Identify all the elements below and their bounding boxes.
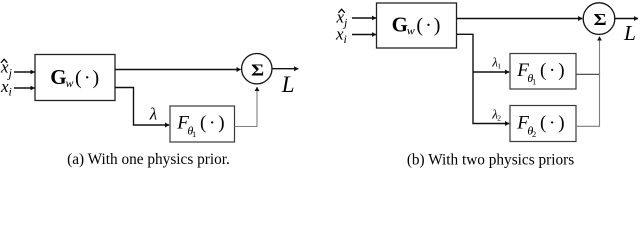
svg-text:Gw(·): Gw(·) xyxy=(50,65,99,90)
svg-text:Σ: Σ xyxy=(594,10,607,29)
wire input arrow x_j_hat to G_w (b) xyxy=(352,17,376,19)
wire branch arrow to F_theta1 (b) xyxy=(473,71,509,73)
svg-text:Gw(·): Gw(·) xyxy=(392,13,441,38)
block G_w box (a) xyxy=(35,55,115,101)
wire G_w output to sigma (b) xyxy=(457,18,583,20)
wire input arrow x_i to G_w (b) xyxy=(352,34,376,36)
summation node sigma (a) xyxy=(242,53,272,83)
wire input arrow x_j_hat to G_w xyxy=(14,71,35,73)
wire F_theta1 output to riser (b) xyxy=(576,73,600,75)
block F_theta1 box (a) xyxy=(170,106,235,142)
hat accent over x (a) xyxy=(1,59,7,63)
wire input arrow x_i to G_w xyxy=(14,87,35,89)
block F_theta2 box (b) xyxy=(510,106,576,142)
summation node sigma (b) xyxy=(583,3,615,35)
wire G_w lower branch to F (a) xyxy=(115,88,169,126)
svg-text:Σ: Σ xyxy=(251,61,264,80)
wire G_w lower branch trunk to F_theta2 (b) xyxy=(457,34,510,123)
wire sigma output arrow (b) xyxy=(615,18,638,20)
block F_theta1 box (b) xyxy=(510,54,576,90)
wire G_w output to sigma (a) xyxy=(115,69,241,71)
wire F_theta1 output to sigma riser (a) xyxy=(235,87,258,127)
svg-text:(a) With one physics prior.: (a) With one physics prior. xyxy=(67,151,230,168)
wire F_theta2 output and riser to sigma (b) xyxy=(576,37,600,127)
block G_w box (b) xyxy=(377,3,457,48)
svg-text:λ: λ xyxy=(149,105,157,124)
svg-text:L: L xyxy=(281,72,295,97)
wire sigma output arrow (a) xyxy=(272,68,298,70)
svg-text:(b) With two physics priors: (b) With two physics priors xyxy=(407,152,574,169)
svg-text:λ1: λ1 xyxy=(491,55,501,71)
svg-text:λ2: λ2 xyxy=(491,107,501,123)
hat accent over x (b) xyxy=(338,9,344,13)
svg-text:L: L xyxy=(623,21,636,45)
